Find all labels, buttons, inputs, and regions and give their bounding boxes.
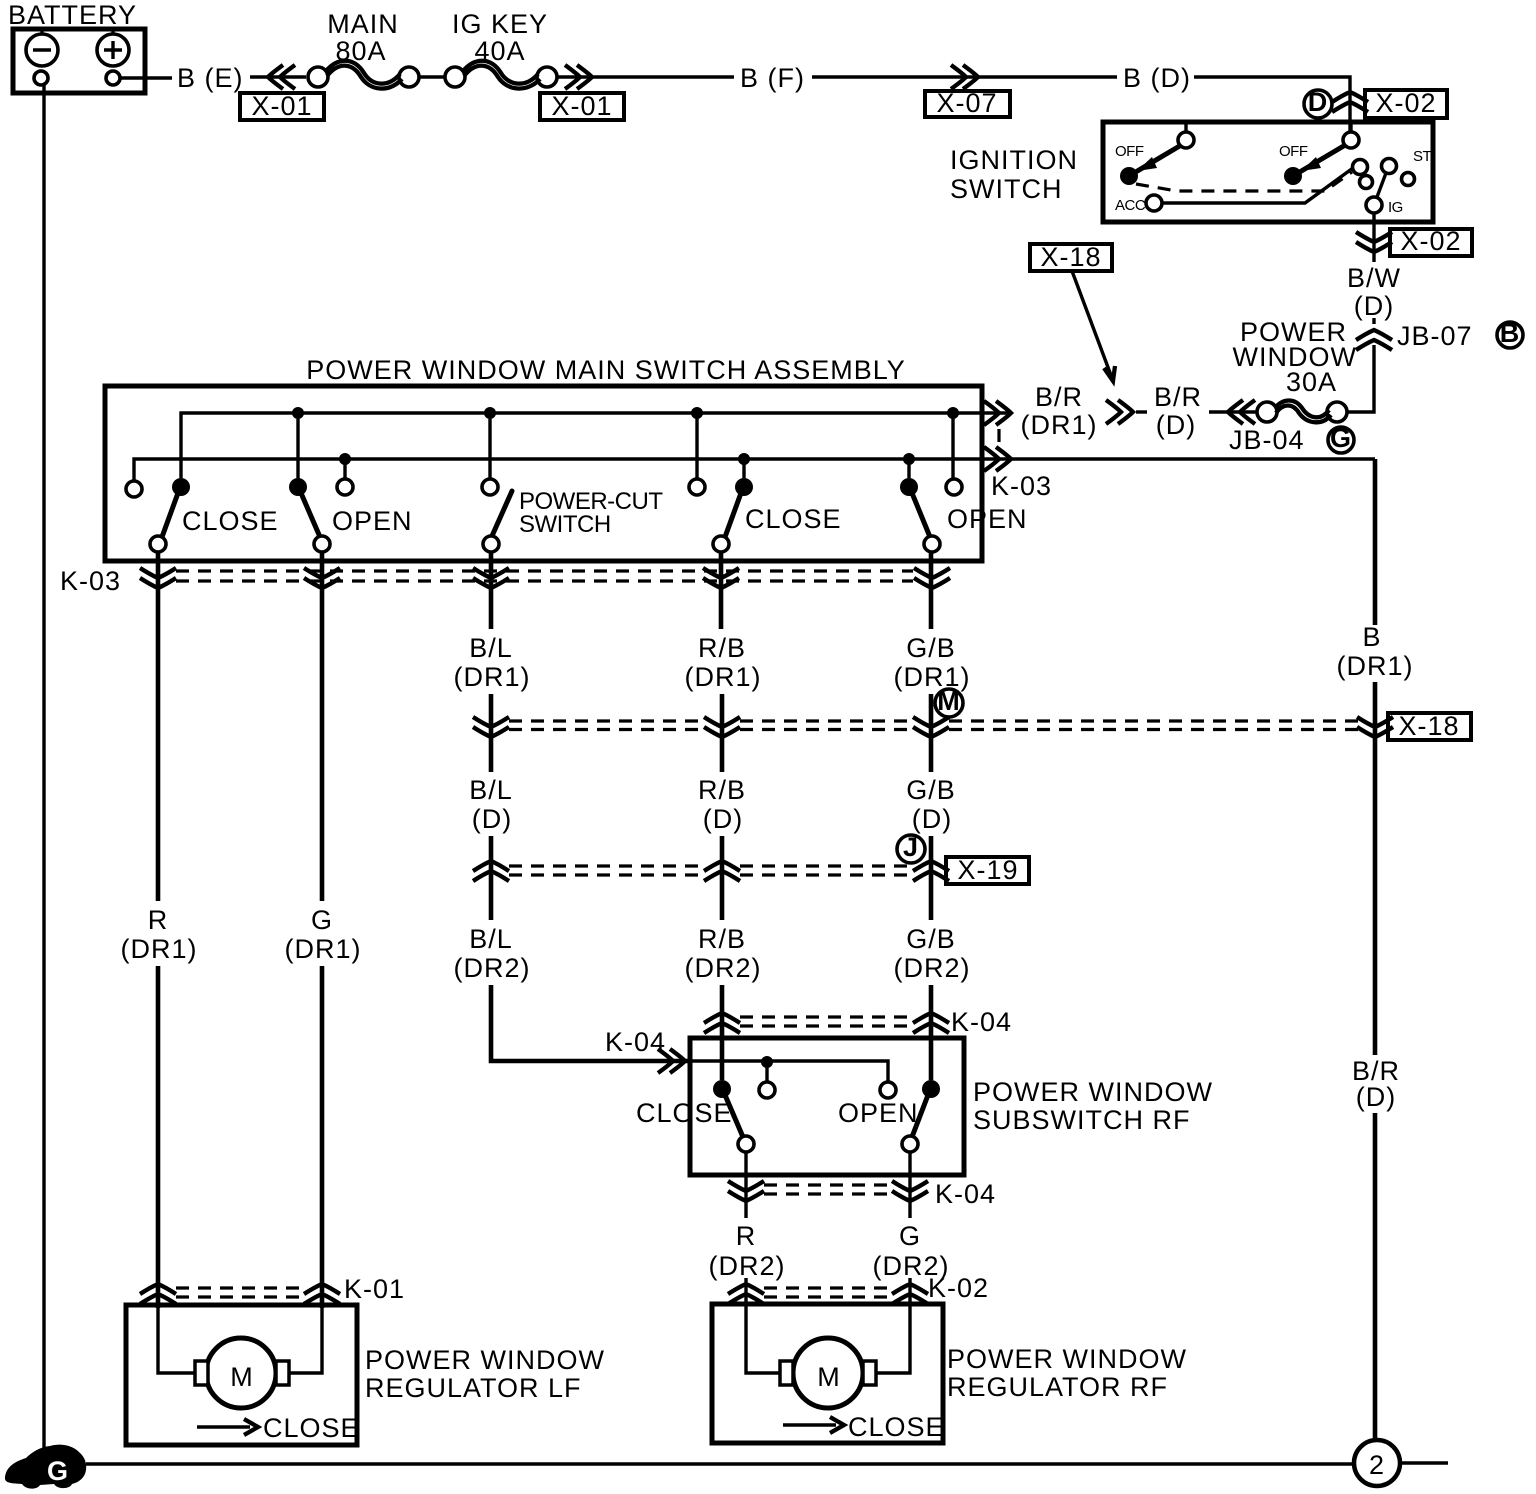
arrow CLOSE LF <box>197 1413 360 1443</box>
svg-text:G: G <box>899 1221 921 1251</box>
svg-text:M: M <box>937 686 961 716</box>
svg-text:IG KEY: IG KEY <box>452 9 548 39</box>
svg-text:POWER WINDOW: POWER WINDOW <box>365 1345 605 1375</box>
svg-text:X-01: X-01 <box>251 91 312 121</box>
svg-text:G: G <box>311 905 333 935</box>
wire G/B (DR2) <box>894 924 971 1080</box>
wire G (DR1) <box>285 552 362 1308</box>
svg-text:(DR2): (DR2) <box>894 953 971 983</box>
svg-text:K-01: K-01 <box>344 1274 405 1304</box>
connector X-02 top with D grommet <box>1304 87 1447 118</box>
power window subswitch RF <box>690 1038 1213 1175</box>
wire B/R (D) <box>1136 382 1257 440</box>
svg-text:IG: IG <box>1388 199 1403 216</box>
svg-text:(DR2): (DR2) <box>685 953 762 983</box>
switch CLOSE left (LF) <box>126 478 279 552</box>
svg-text:(D): (D) <box>472 804 512 834</box>
wire B/R (DR1) <box>1021 382 1098 440</box>
svg-text:B/L: B/L <box>469 924 513 954</box>
switch CLOSE subswitch <box>636 1080 754 1152</box>
svg-text:G: G <box>1330 423 1352 453</box>
svg-text:30A: 30A <box>1286 367 1337 397</box>
svg-text:(DR1): (DR1) <box>285 934 362 964</box>
svg-text:R: R <box>148 905 169 935</box>
wire G/B (D) <box>906 775 956 920</box>
svg-text:R: R <box>736 1221 757 1251</box>
svg-text:B (E): B (E) <box>177 63 244 93</box>
svg-text:(DR2): (DR2) <box>709 1251 786 1281</box>
svg-text:K-04: K-04 <box>605 1027 666 1057</box>
svg-text:G/B: G/B <box>906 924 956 954</box>
wire R/B (DR1) <box>685 552 762 772</box>
svg-text:JB-04: JB-04 <box>1229 425 1305 455</box>
svg-text:B: B <box>1500 318 1521 348</box>
node upper bus <box>181 407 1011 479</box>
motor M regulator RF <box>780 1338 876 1408</box>
node lower bus <box>134 453 1375 625</box>
battery <box>8 0 145 93</box>
connector X-18 inline <box>1030 242 1133 424</box>
connector K-03 bottom row <box>60 566 950 596</box>
arrow CLOSE RF <box>783 1412 945 1442</box>
svg-text:CLOSE: CLOSE <box>848 1412 945 1442</box>
svg-text:B/L: B/L <box>469 633 513 663</box>
switch OPEN left (LF) <box>289 478 413 552</box>
svg-text:X-02: X-02 <box>1400 226 1461 256</box>
svg-text:ACC: ACC <box>1115 197 1146 214</box>
svg-text:K-02: K-02 <box>928 1273 989 1303</box>
svg-text:CLOSE: CLOSE <box>263 1413 360 1443</box>
switch POWER-CUT <box>482 479 663 552</box>
svg-text:R/B: R/B <box>698 633 746 663</box>
svg-text:X-02: X-02 <box>1375 88 1436 118</box>
connector K-04 left entry <box>605 1027 685 1073</box>
connector X-19 row <box>473 855 1029 885</box>
svg-text:B (F): B (F) <box>740 63 805 93</box>
switch OPEN subswitch <box>838 1080 940 1152</box>
svg-text:X-19: X-19 <box>957 855 1018 885</box>
fuse MAIN 80A <box>308 9 419 89</box>
svg-text:M: M <box>817 1362 841 1392</box>
svg-text:REGULATOR RF: REGULATOR RF <box>947 1372 1168 1402</box>
svg-text:D: D <box>1308 87 1329 117</box>
node page link 2 <box>1354 1440 1448 1486</box>
wire B(E) <box>120 76 172 79</box>
svg-text:X-01: X-01 <box>551 91 612 121</box>
motor M regulator LF <box>195 1338 289 1408</box>
svg-text:(D): (D) <box>703 804 743 834</box>
wire G (DR2) <box>873 1221 950 1308</box>
svg-text:2: 2 <box>1369 1450 1385 1480</box>
svg-text:SWITCH: SWITCH <box>950 174 1062 204</box>
svg-text:(DR1): (DR1) <box>121 934 198 964</box>
svg-text:J: J <box>903 832 919 862</box>
svg-text:ST: ST <box>1413 148 1432 165</box>
svg-text:POWER WINDOW: POWER WINDOW <box>973 1077 1213 1107</box>
wire to motor LF <box>158 1308 196 1373</box>
power window main switch assembly <box>105 355 982 561</box>
connector X-18 row <box>473 711 1471 741</box>
svg-text:(D): (D) <box>1356 1082 1396 1112</box>
connector X-02 bottom <box>1356 226 1472 262</box>
svg-text:CLOSE: CLOSE <box>182 506 279 536</box>
ignition switch <box>950 122 1433 230</box>
svg-text:(D): (D) <box>912 804 952 834</box>
svg-text:(D): (D) <box>1156 410 1196 440</box>
svg-text:(DR1): (DR1) <box>454 662 531 692</box>
svg-text:B/L: B/L <box>469 775 513 805</box>
svg-text:JB-07: JB-07 <box>1397 321 1473 351</box>
wire R (DR2) <box>709 1221 786 1308</box>
switch OPEN right (RF) <box>900 478 1028 552</box>
svg-text:IGNITION: IGNITION <box>950 145 1078 175</box>
svg-text:REGULATOR LF: REGULATOR LF <box>365 1373 582 1403</box>
svg-text:B/W: B/W <box>1347 263 1401 293</box>
wire R (DR1) <box>121 552 198 1308</box>
svg-text:G: G <box>47 1456 69 1486</box>
svg-text:R/B: R/B <box>698 775 746 805</box>
svg-text:OPEN: OPEN <box>947 504 1028 534</box>
connector X-07 <box>925 65 1010 118</box>
wire B/W (D) <box>1347 263 1401 324</box>
connector X-01 right <box>540 65 624 121</box>
wire B(F) <box>592 75 734 78</box>
wire B(D) <box>978 75 1117 78</box>
wire B/R (D) right rail <box>1352 1056 1400 1440</box>
fuse IG KEY 40A <box>445 9 557 89</box>
svg-text:OPEN: OPEN <box>332 506 413 536</box>
power window regulator LF <box>126 1305 605 1445</box>
svg-text:M: M <box>230 1362 254 1392</box>
svg-text:OPEN: OPEN <box>838 1098 919 1128</box>
svg-text:POWER WINDOW: POWER WINDOW <box>947 1344 1187 1374</box>
svg-text:SUBSWITCH RF: SUBSWITCH RF <box>973 1105 1191 1135</box>
connector K-04 row upper <box>704 1007 1012 1037</box>
grommet M <box>935 686 963 717</box>
svg-text:OFF: OFF <box>1115 143 1144 160</box>
svg-text:(DR1): (DR1) <box>685 662 762 692</box>
svg-text:K-04: K-04 <box>935 1179 996 1209</box>
wire G/B (DR1) <box>894 552 971 772</box>
svg-text:B (D): B (D) <box>1123 63 1191 93</box>
svg-text:BATTERY: BATTERY <box>8 0 137 30</box>
fuse POWER WINDOW 30A <box>1233 317 1374 422</box>
wire B (DR1) right rail <box>1337 622 1414 1055</box>
svg-text:X-18: X-18 <box>1398 711 1459 741</box>
wire to motor RF <box>746 1308 781 1373</box>
switch CLOSE right (RF) <box>689 478 842 552</box>
svg-text:(DR1): (DR1) <box>1337 651 1414 681</box>
connector K-03 right exit <box>984 401 1052 501</box>
svg-text:(DR2): (DR2) <box>454 953 531 983</box>
svg-text:POWER WINDOW MAIN SWITCH ASSEM: POWER WINDOW MAIN SWITCH ASSEMBLY <box>306 355 906 385</box>
power window regulator RF <box>712 1304 1187 1443</box>
svg-text:G/B: G/B <box>906 775 956 805</box>
wire battery negative to ground <box>42 85 45 1448</box>
svg-text:(D): (D) <box>1354 291 1394 321</box>
connector K-02 row <box>728 1273 989 1304</box>
svg-text:B/R: B/R <box>1035 382 1083 412</box>
connector JB-07 B <box>1356 318 1523 351</box>
svg-text:(DR1): (DR1) <box>1021 410 1098 440</box>
svg-text:B: B <box>1362 622 1381 652</box>
svg-text:CLOSE: CLOSE <box>636 1098 733 1128</box>
connector X-01 left <box>240 65 324 121</box>
wire between fuses <box>419 75 445 78</box>
svg-text:K-04: K-04 <box>951 1007 1012 1037</box>
svg-text:R/B: R/B <box>698 924 746 954</box>
node subswitch feed <box>679 1056 896 1098</box>
svg-text:OFF: OFF <box>1279 143 1308 160</box>
wire ground rail <box>86 1462 1352 1465</box>
svg-text:X-18: X-18 <box>1040 242 1101 272</box>
connector K-04 row lower <box>728 1152 996 1218</box>
grommet J <box>897 832 925 863</box>
ground G body <box>5 1445 86 1489</box>
connector K-01 row <box>140 1274 405 1304</box>
svg-text:K-03: K-03 <box>60 566 121 596</box>
wire R/B (D) <box>698 775 746 920</box>
svg-text:SWITCH: SWITCH <box>519 511 611 538</box>
connector JB-04 G <box>1228 400 1354 455</box>
svg-text:G/B: G/B <box>906 633 956 663</box>
wire B/L (D) <box>469 775 513 920</box>
wire B/L (DR1) <box>454 552 531 772</box>
svg-text:B/R: B/R <box>1154 382 1202 412</box>
wire R/B (DR2) <box>685 924 762 1080</box>
svg-text:CLOSE: CLOSE <box>745 504 842 534</box>
svg-text:MAIN: MAIN <box>327 9 399 39</box>
wire B/L (DR2) <box>454 924 691 1061</box>
svg-text:X-07: X-07 <box>936 88 997 118</box>
svg-text:K-03: K-03 <box>991 471 1052 501</box>
